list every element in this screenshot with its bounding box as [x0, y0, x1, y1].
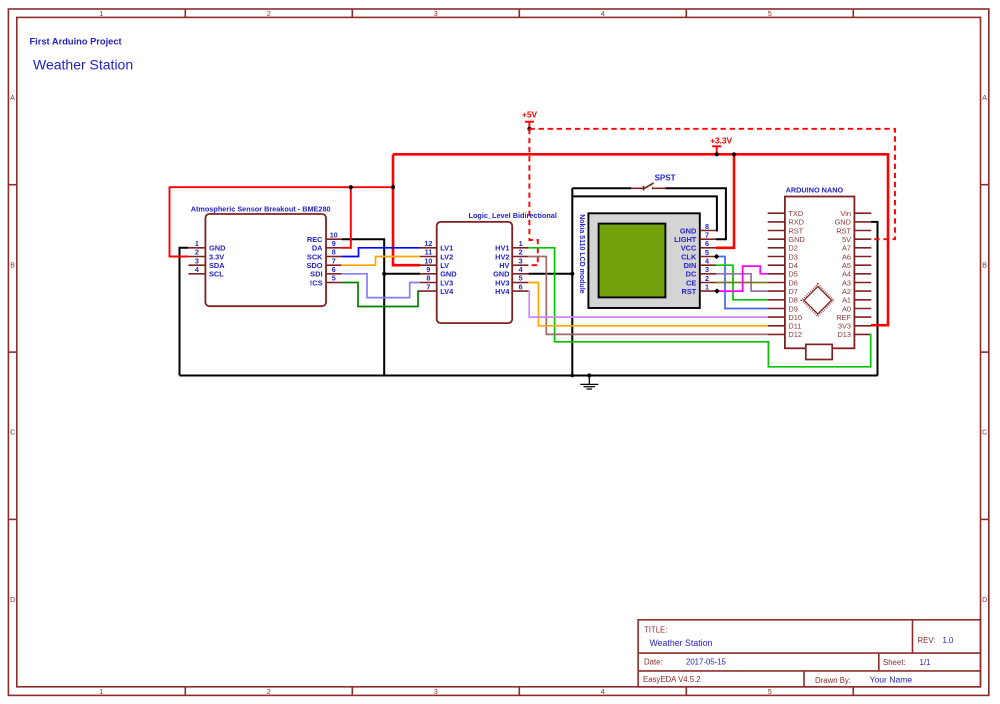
svg-text:GND: GND [680, 226, 697, 235]
pin Arduino right RST [836, 226, 871, 235]
frame ruler numbers top [99, 11, 772, 18]
svg-text:A6: A6 [842, 252, 851, 261]
svg-text:3.3V: 3.3V [209, 252, 224, 261]
pin 7 BME280 right SDO [306, 256, 341, 270]
svg-text:TITLE:: TITLE: [644, 626, 667, 635]
svg-text:8: 8 [705, 222, 709, 231]
pin Arduino right REF [836, 313, 871, 322]
pin Arduino left D8 [768, 296, 798, 305]
wire GND from BME280 REC pin [341, 239, 384, 375]
svg-text:D7: D7 [788, 287, 797, 296]
frame ruler letters left [10, 95, 15, 604]
wire +3.3V branch to Nokia VCC [716, 154, 734, 248]
svg-text:LV2: LV2 [440, 252, 453, 261]
pin 5 Nokia CLK [681, 248, 716, 261]
svg-text:Sheet:: Sheet: [883, 658, 906, 667]
svg-text:Atmospheric Sensor Breakout -: Atmospheric Sensor Breakout - BME280 [191, 205, 331, 214]
svg-text:CLK: CLK [681, 252, 697, 261]
svg-text:9: 9 [426, 265, 430, 274]
svg-text:D: D [10, 597, 15, 604]
pin 6 Nokia VCC [681, 239, 716, 252]
wire +5V dashed down to logic HV pin [528, 129, 537, 265]
svg-text:1.0: 1.0 [943, 636, 955, 645]
pin 10 logic left LV [420, 256, 449, 270]
svg-text:REF: REF [836, 313, 851, 322]
pin Arduino right 5V [842, 235, 871, 244]
wire LCD GND pin to GND vertical [572, 196, 717, 230]
wire +3.3V thick vertical to logic LV pin [393, 154, 420, 265]
svg-text:DA: DA [312, 244, 323, 253]
node CLK junction diamond [714, 254, 719, 259]
svg-text:C: C [10, 430, 15, 437]
svg-text:Weather Station: Weather Station [650, 638, 713, 648]
wire GND vertical at LCD left [571, 188, 573, 375]
svg-text:8: 8 [332, 248, 336, 257]
svg-text:LV1: LV1 [440, 244, 453, 253]
wire SDI cornflower BME to LV3 [341, 274, 420, 298]
component U4 ARDUINO NANO body [785, 197, 855, 349]
svg-text:+5V: +5V [522, 109, 538, 119]
pin 3 logic right HV [499, 256, 528, 270]
svg-text:LV4: LV4 [440, 287, 454, 296]
svg-text:Drawn By:: Drawn By: [815, 676, 851, 685]
pin Arduino right D13 [837, 330, 871, 339]
svg-text:A: A [10, 95, 15, 102]
svg-text:VCC: VCC [681, 244, 697, 253]
pin 6 logic right HV4 [495, 282, 528, 296]
junction +3.3V VCC branch [732, 152, 736, 156]
pin 3 BME280 left SDA [188, 256, 225, 270]
pin 7 logic left LV4 [420, 282, 454, 296]
pin Arduino left RXD [768, 218, 804, 227]
svg-text:REV:: REV: [918, 636, 936, 645]
svg-text:SCL: SCL [209, 270, 224, 279]
pin Arduino right Vin [840, 209, 871, 218]
power symbol +3.3V [710, 136, 733, 157]
wire SDO orange BME to LV2 [341, 257, 420, 266]
svg-text:HV4: HV4 [495, 287, 510, 296]
svg-text:First Arduino Project: First Arduino Project [30, 36, 122, 46]
wire +5V dashed to Arduino 5V pin [529, 129, 895, 239]
svg-text:1: 1 [195, 239, 199, 248]
wire CLK royal blue to Arduino D9 [716, 257, 768, 309]
pin 2 BME280 left 3.3V [188, 248, 224, 262]
pin 11 logic left LV2 [420, 248, 453, 262]
wire HV1 green to Arduino D13 [528, 248, 871, 367]
frame ruler letters right [982, 95, 987, 604]
pin 3 Nokia DC [686, 265, 716, 278]
pin 4 logic right GND [493, 265, 528, 279]
svg-text:9: 9 [332, 239, 336, 248]
svg-text:2: 2 [267, 689, 271, 696]
title block [638, 620, 980, 687]
pin 6 BME280 right SDI [310, 265, 341, 279]
svg-text:3: 3 [434, 689, 438, 696]
svg-text:Your Name: Your Name [870, 675, 913, 685]
pin Arduino left D6 [768, 278, 798, 287]
pin 8 BME280 right SCK [307, 248, 342, 262]
svg-text:RST: RST [682, 287, 697, 296]
svg-text:+3.3V: +3.3V [710, 136, 733, 146]
svg-text:HV1: HV1 [495, 244, 509, 253]
wire SPST left segment [572, 187, 631, 189]
svg-text:1: 1 [99, 11, 103, 18]
pin 10 BME280 right REC [307, 230, 342, 244]
frame ruler numbers bottom [99, 689, 772, 696]
svg-text:6: 6 [332, 265, 336, 274]
ground symbol [580, 373, 598, 389]
svg-text:D5: D5 [788, 270, 797, 279]
component U2 Logic_Level Bidirectional body [437, 222, 513, 323]
svg-text:DC: DC [686, 270, 697, 279]
wire CS green BME to LV4 [341, 283, 420, 307]
svg-text:SDI: SDI [310, 270, 322, 279]
pin Arduino right A4 [842, 270, 871, 279]
svg-text:3: 3 [434, 11, 438, 18]
svg-text:Logic_Level Bidirectional: Logic_Level Bidirectional [469, 211, 557, 220]
svg-text:RST: RST [788, 226, 803, 235]
wire HV2 brown to Arduino D12 [528, 257, 767, 335]
svg-text:1: 1 [519, 239, 523, 248]
svg-text:12: 12 [424, 239, 432, 248]
svg-text:Nokia 5110 LCD module: Nokia 5110 LCD module [578, 214, 585, 293]
pin 2 Nokia CE [686, 274, 716, 287]
svg-text:D: D [982, 597, 987, 604]
svg-text:Date:: Date: [644, 658, 663, 667]
svg-text:D2: D2 [788, 244, 797, 253]
pin 1 Nokia RST [682, 283, 716, 296]
wire SPST right segment to LCD LIGHT pin [666, 188, 726, 239]
pin Arduino right A5 [842, 261, 871, 270]
svg-text:A7: A7 [842, 244, 851, 253]
junction red at DA branch [349, 185, 353, 189]
svg-text:5: 5 [705, 248, 709, 257]
svg-text:TXD: TXD [788, 209, 803, 218]
U4 USB connector rect [806, 344, 832, 359]
pin 4 BME280 left SCL [188, 265, 224, 279]
wire DIN green to Arduino D8 [716, 265, 768, 300]
svg-text:C: C [982, 430, 987, 437]
pin Arduino right A0 [842, 304, 871, 313]
svg-text:HV2: HV2 [495, 252, 509, 261]
U4 MCU chip diamond [802, 284, 834, 316]
svg-text:GND: GND [440, 270, 457, 279]
junction at REC-GND branch [382, 272, 386, 276]
svg-text:2: 2 [195, 248, 199, 257]
U3 LCD screen [599, 224, 666, 298]
pin 1 BME280 left GND [188, 239, 226, 253]
pin Arduino left D2 [768, 244, 798, 253]
svg-text:A1: A1 [842, 296, 851, 305]
svg-text:3: 3 [705, 265, 709, 274]
svg-text:5: 5 [332, 274, 336, 283]
wire RST magenta to Arduino D5 [716, 266, 768, 291]
svg-text:4: 4 [601, 689, 605, 696]
pin Arduino left D9 [768, 304, 798, 313]
wire GND from Arduino right GND pin [871, 222, 878, 376]
svg-text:1/1: 1/1 [920, 658, 931, 667]
svg-text:7: 7 [426, 282, 430, 291]
svg-text:4: 4 [519, 265, 523, 274]
node RST junction diamond [714, 288, 719, 293]
pin Arduino right A6 [842, 252, 871, 261]
pin Arduino right A2 [842, 287, 871, 296]
svg-text:D3: D3 [788, 252, 797, 261]
svg-text:B: B [982, 262, 987, 269]
svg-text:!CS: !CS [310, 278, 323, 287]
pin Arduino right 3V3 [838, 322, 871, 331]
pin Arduino left D10 [768, 313, 802, 322]
wire GND from logic converter right GND pin [528, 273, 572, 275]
pin 12 logic left LV1 [420, 239, 453, 253]
pin 2 logic right HV2 [495, 248, 528, 262]
svg-text:GND: GND [493, 270, 510, 279]
junction logic GND to vertical [570, 272, 574, 276]
pin 8 logic left LV3 [420, 274, 453, 288]
pin 7 Nokia LIGHT [674, 231, 716, 244]
pin 4 Nokia DIN [684, 257, 716, 270]
svg-text:2: 2 [519, 248, 523, 257]
wire GND bus bottom [180, 375, 878, 377]
svg-text:A4: A4 [842, 270, 851, 279]
wire CE olive to Arduino D6 [716, 282, 768, 284]
component U1 Atmospheric Sensor Breakout BME280 body [205, 214, 326, 306]
pin Arduino left GND [768, 235, 805, 244]
svg-text:D8: D8 [788, 296, 797, 305]
svg-text:Weather Station: Weather Station [33, 57, 133, 73]
pin 9 logic left GND [420, 265, 457, 279]
wire +3.3V loop from BME280 3.3V pin to DA pin [170, 187, 394, 256]
wire GND branch to logic converter left GND pin [384, 273, 420, 275]
svg-text:SPST: SPST [655, 174, 676, 183]
svg-text:11: 11 [425, 248, 433, 257]
pin 9 BME280 right DA [312, 239, 342, 253]
pin 5 logic right HV3 [495, 274, 528, 288]
pin 5 BME280 right !CS [310, 274, 342, 288]
pin Arduino left RST [768, 226, 804, 235]
wire HV3 orange to Arduino D11 [528, 283, 767, 326]
svg-text:6: 6 [705, 239, 709, 248]
wire +3.3V thick top bus [393, 154, 888, 325]
svg-text:RST: RST [836, 226, 851, 235]
svg-text:Vin: Vin [840, 209, 851, 218]
pin Arduino left D12 [768, 330, 802, 339]
svg-text:B: B [10, 262, 15, 269]
pin Arduino left D11 [768, 322, 802, 331]
component U3 Nokia 5110 LCD module body [588, 213, 699, 308]
pin Arduino right A7 [842, 244, 871, 253]
pin Arduino right A1 [842, 296, 871, 305]
junction red loop joins vertical [391, 185, 395, 189]
pin Arduino left D3 [768, 252, 798, 261]
svg-text:ARDUINO NANO: ARDUINO NANO [786, 186, 844, 195]
svg-text:D13: D13 [837, 330, 851, 339]
svg-text:SCK: SCK [307, 252, 323, 261]
pin Arduino right GND [835, 218, 872, 227]
pin Arduino left D5 [768, 270, 798, 279]
svg-text:A2: A2 [842, 287, 851, 296]
wire red branch down to BME280 DA pin [341, 187, 350, 248]
pin Arduino left D4 [768, 261, 798, 270]
junction GND vertical to bus [571, 374, 575, 378]
wire DC purple to Arduino D7 [716, 274, 768, 291]
svg-text:5: 5 [768, 689, 772, 696]
power symbol +5V [522, 109, 538, 131]
pin 1 logic right HV1 [495, 239, 528, 253]
pin Arduino left TXD [768, 209, 803, 218]
svg-text:6: 6 [519, 282, 523, 291]
svg-text:D10: D10 [788, 313, 802, 322]
svg-text:2017-05-15: 2017-05-15 [686, 658, 727, 667]
svg-text:1: 1 [99, 689, 103, 696]
wire HV4 violet to Arduino D10 [528, 291, 767, 317]
svg-text:5: 5 [768, 11, 772, 18]
pin Arduino left D7 [768, 287, 798, 296]
svg-text:GND: GND [209, 244, 226, 253]
svg-text:EasyEDA V4.5.2: EasyEDA V4.5.2 [643, 675, 701, 684]
pin 8 Nokia GND [680, 222, 716, 235]
svg-text:4: 4 [601, 11, 605, 18]
svg-text:A: A [982, 95, 987, 102]
switch S1 SPST [631, 174, 676, 191]
svg-text:D12: D12 [788, 330, 802, 339]
pin Arduino right A3 [842, 278, 871, 287]
svg-text:4: 4 [195, 265, 199, 274]
wire GND from BME280 pin1 [180, 248, 189, 376]
svg-text:2: 2 [267, 11, 271, 18]
svg-text:1: 1 [705, 283, 709, 292]
wire SCK blue BME to LV1 [341, 248, 420, 257]
